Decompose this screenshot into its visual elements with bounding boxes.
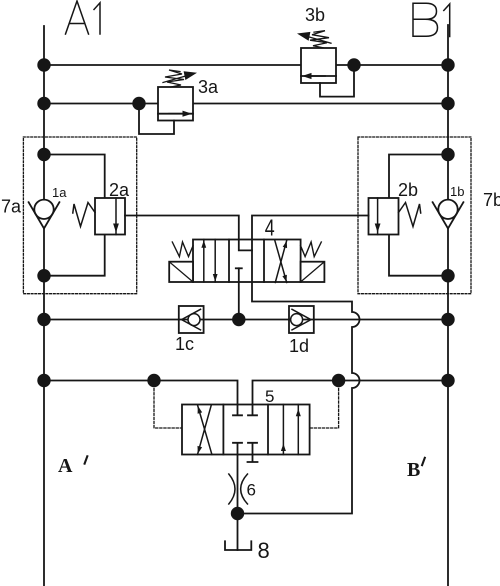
node dot line4 pilot left (147, 374, 160, 387)
wire line1 right segment (336, 64, 448, 66)
wire line3 (1c/1d line) segments (44, 319, 179, 321)
valve 4 divider right (263, 240, 265, 283)
relief valve 3b (297, 31, 336, 83)
svg-text:3b: 3b (305, 5, 325, 25)
svg-text:A: A (58, 455, 73, 477)
node dot line4 pilot right (332, 374, 345, 387)
node dot line3 left (37, 313, 50, 326)
valve 5 divider right (267, 405, 269, 455)
wire A1 main vertical upper (43, 26, 45, 200)
svg-text:5: 5 (265, 387, 274, 406)
wire A1 main vertical lower (43, 229, 45, 586)
svg-text:6: 6 (247, 481, 256, 500)
wire 2b bottom branch (389, 235, 448, 276)
node dot 7b bottom (441, 269, 454, 282)
wire valve 5 outlet to tank (237, 455, 239, 551)
label A' (58, 455, 87, 477)
svg-text:B: B (407, 459, 420, 481)
wire 2b top branch (389, 155, 448, 199)
node dot line3 centre (232, 313, 245, 326)
valve 5 divider left (222, 405, 224, 455)
svg-text:1d: 1d (289, 336, 309, 356)
valve 5 left position crossed arrows (198, 405, 212, 455)
valve 4 right solenoid (301, 262, 325, 282)
pilot line right (dashed) to valve 5 (310, 381, 339, 429)
wire line1 left segment (44, 64, 301, 66)
svg-text:3a: 3a (198, 77, 219, 97)
svg-text:4: 4 (265, 215, 275, 241)
tank symbol 8 (225, 541, 251, 550)
dashed enclosure 7b (358, 137, 471, 294)
wire valve4 P port down to node (238, 282, 240, 320)
valve 4 left spring (172, 242, 193, 257)
svg-text:7a: 7a (1, 197, 22, 217)
node dot 7a bottom (37, 269, 50, 282)
relief valve 2b (369, 198, 421, 235)
pilot line left (dashed) to valve 5 (154, 381, 182, 429)
dashed enclosure 7a (23, 137, 136, 294)
wire 3a pilot loop (139, 104, 174, 135)
wire line4 right segment into valve 5 (253, 381, 449, 405)
wire work line A to valve 4 (125, 216, 252, 251)
node dot 7b top (441, 148, 454, 161)
label B1 (413, 3, 450, 36)
valve 5 centre blocked ports (233, 405, 257, 455)
valve 5 right position arrows (281, 405, 301, 455)
relief valve 3a (158, 70, 197, 121)
check valve 1c (179, 306, 204, 333)
check valve 1b (433, 200, 464, 229)
svg-text:2b: 2b (398, 180, 418, 200)
valve 4 right spring (301, 242, 322, 257)
wire B1 main vertical upper (447, 25, 449, 200)
wire work line B to valve 4 (through line, bypass to tank) (238, 216, 369, 514)
svg-text:1a: 1a (52, 185, 67, 200)
directional valve 4 body (193, 240, 301, 283)
wire line2 left segment (44, 103, 158, 105)
relief valve 2a (73, 198, 125, 235)
restrictor 6 (229, 474, 248, 504)
check valve 1d (289, 306, 314, 333)
node dot 3b pilot (347, 58, 360, 71)
svg-text:8: 8 (258, 538, 270, 563)
directional valve 5 body (182, 405, 310, 455)
valve 4 left solenoid (169, 262, 193, 282)
node dot line1 left end (37, 58, 50, 71)
wire B1 main vertical lower (447, 229, 449, 586)
wire 2a top branch (44, 155, 105, 199)
node dot line3 right (441, 313, 454, 326)
node dot tank junction (231, 507, 244, 520)
label B' (407, 458, 425, 481)
wire line4 left segment into valve 5 (44, 381, 238, 405)
valve 4 centre position blocked P stub (238, 268, 240, 282)
valve 4 left position arrows (201, 240, 217, 283)
svg-text:7b: 7b (483, 190, 500, 210)
check valve 1a (29, 200, 60, 229)
node dot 7a top (37, 148, 50, 161)
label A1 (66, 1, 101, 34)
valve 4 divider left (228, 240, 230, 283)
valve 4 right position crossed arrows (275, 240, 287, 282)
svg-text:1c: 1c (175, 334, 194, 354)
svg-text:2a: 2a (109, 180, 130, 200)
wire line2 right segment (193, 103, 448, 105)
valve 5 plugged port below (248, 455, 258, 463)
svg-text:1b: 1b (450, 184, 464, 199)
node dot line2 left end (37, 97, 50, 110)
node dot line2 right end (441, 97, 454, 110)
node dot line4 left end (37, 374, 50, 387)
node dot line1 right end (441, 58, 454, 71)
node dot 3a pilot (132, 97, 145, 110)
node dot line4 right end (441, 374, 454, 387)
wire 2a bottom branch (44, 235, 105, 276)
wire 3b pilot loop (320, 65, 354, 97)
